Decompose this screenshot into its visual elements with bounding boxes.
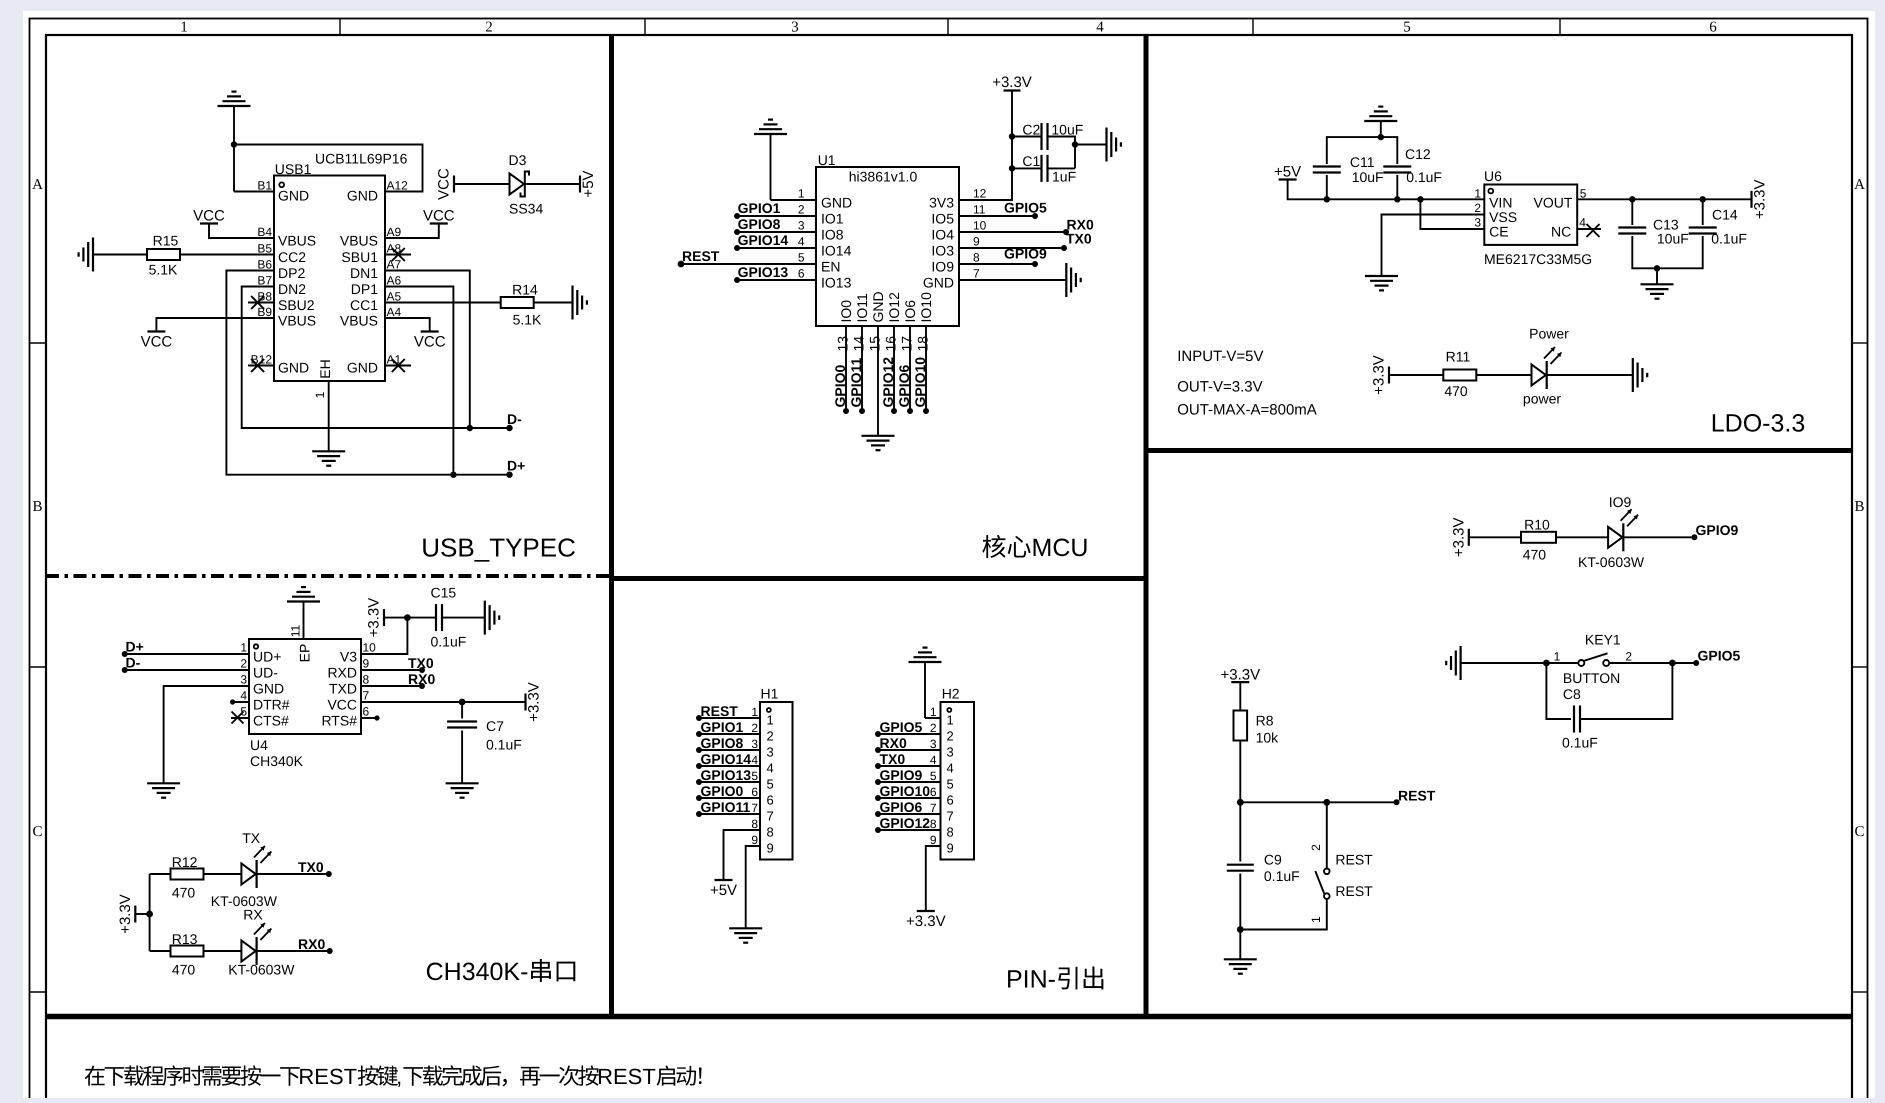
- wire LED to ground: [1547, 374, 1633, 376]
- node C1 C2 ground junction: [1072, 141, 1078, 147]
- net REST: [678, 248, 720, 267]
- svg-text:D3: D3: [509, 152, 527, 168]
- svg-text:470: 470: [172, 962, 196, 978]
- svg-text:CE: CE: [1489, 224, 1508, 240]
- net RX0 at LED: [298, 936, 333, 954]
- svg-text:U6: U6: [1484, 168, 1502, 184]
- row ticks left band: [30, 343, 47, 992]
- switch RESET: [1309, 844, 1373, 923]
- svg-text:USB_TYPEC: USB_TYPEC: [421, 533, 576, 563]
- power VCC at pin B4: [193, 208, 225, 225]
- pin 10 IO4: [931, 219, 986, 243]
- wire R12 to LED TX: [203, 873, 241, 875]
- svg-text:KEY1: KEY1: [1585, 632, 1621, 648]
- svg-text:VCC: VCC: [327, 697, 357, 713]
- svg-text:UD-: UD-: [253, 665, 278, 681]
- diode D3: [509, 152, 544, 217]
- pin 8 H2: [930, 817, 954, 840]
- wire KEY1 pin 2 to GPIO5: [1609, 662, 1696, 664]
- pin B5: [257, 242, 306, 266]
- svg-text:GND: GND: [347, 360, 378, 376]
- svg-text:GPIO0: GPIO0: [832, 364, 848, 407]
- pin EH: [313, 359, 333, 451]
- pin 9 H2: [930, 833, 954, 856]
- net GPIO14: [734, 232, 788, 251]
- wire pin B6 to D+ line: [226, 271, 509, 475]
- wire R8 to REST junction: [1239, 741, 1241, 803]
- svg-text:11: 11: [973, 203, 986, 217]
- svg-text:BUTTON: BUTTON: [1563, 670, 1620, 686]
- wire VCC to pin B4: [209, 224, 274, 239]
- pin 16 IO12: [883, 292, 903, 411]
- pin 12 3V3: [929, 187, 987, 211]
- wire GND to pin B1: [234, 145, 274, 192]
- ic U1 hi3861: [816, 152, 959, 326]
- net GPIO6 at H2 pin 7: [875, 799, 923, 817]
- svg-text:4: 4: [751, 753, 758, 767]
- node D- junction: [467, 425, 473, 431]
- svg-text:VOUT: VOUT: [1534, 195, 1573, 211]
- ground at pin 7: [1066, 263, 1080, 297]
- svg-text:B12: B12: [251, 353, 273, 367]
- svg-text:6: 6: [767, 793, 774, 808]
- node CE rail junction: [1417, 196, 1423, 202]
- node switch junction: [1323, 799, 1330, 806]
- svg-text:D+: D+: [507, 458, 525, 474]
- pin 18 IO10: [915, 292, 935, 411]
- svg-text:4: 4: [240, 689, 247, 703]
- svg-text:GND: GND: [253, 681, 284, 697]
- wire pin 11 to GPIO5: [959, 215, 1035, 217]
- svg-text:EH: EH: [317, 359, 333, 378]
- switch KEY1: [1554, 632, 1633, 687]
- title 核心MCU: [982, 534, 1088, 562]
- svg-text:9: 9: [767, 841, 774, 856]
- svg-text:DN1: DN1: [350, 265, 378, 281]
- wire pin 8 to GPIO9: [959, 263, 1035, 265]
- svg-text:CTS#: CTS#: [253, 713, 289, 729]
- svg-text:1: 1: [798, 187, 805, 201]
- svg-text:TX: TX: [242, 830, 261, 846]
- ground right of C15: [485, 601, 499, 635]
- svg-text:GPIO1: GPIO1: [701, 719, 744, 735]
- svg-text:C: C: [1854, 824, 1864, 840]
- svg-text:+5V: +5V: [710, 882, 737, 899]
- net REST terminal: [1394, 787, 1436, 805]
- svg-text:GPIO0: GPIO0: [701, 783, 744, 799]
- net TX0 at pin 9: [1061, 231, 1092, 252]
- wire ground to C12 top: [1381, 137, 1398, 164]
- svg-text:6: 6: [947, 793, 954, 808]
- svg-text:C7: C7: [486, 718, 504, 734]
- power +3.3V at C15: [366, 598, 385, 638]
- svg-text:5.1K: 5.1K: [513, 312, 542, 328]
- pin B8 no-connect: [248, 290, 315, 314]
- svg-text:0.1uF: 0.1uF: [1562, 734, 1598, 750]
- svg-text:2: 2: [1309, 844, 1323, 851]
- svg-text:GND: GND: [821, 195, 852, 211]
- svg-text:VCC: VCC: [193, 208, 225, 225]
- node C2 junction: [1009, 133, 1015, 139]
- svg-text:C12: C12: [1405, 146, 1431, 162]
- node C11 rail junction: [1324, 196, 1330, 202]
- net GPIO6 at pin 17: [896, 364, 913, 414]
- row ticks right band: [1852, 343, 1868, 992]
- svg-text:GPIO5: GPIO5: [1004, 200, 1047, 216]
- svg-text:C: C: [32, 824, 42, 840]
- pin 1 H1: [751, 705, 773, 728]
- node D- terminal: [506, 411, 522, 431]
- svg-text:GPIO9: GPIO9: [880, 767, 923, 783]
- svg-text:VBUS: VBUS: [278, 313, 316, 329]
- ground below C7: [446, 783, 479, 797]
- svg-text:IO8: IO8: [821, 227, 844, 243]
- ground below VSS: [1365, 276, 1398, 290]
- wire R11 to LED: [1477, 374, 1532, 376]
- svg-text:PIN-: PIN-: [1006, 966, 1056, 994]
- svg-text:A: A: [32, 177, 43, 193]
- svg-text:7: 7: [363, 689, 370, 703]
- node C1 junction: [1009, 165, 1015, 171]
- svg-text:UCB11L69P16: UCB11L69P16: [315, 151, 408, 167]
- pin 1 H2: [930, 705, 954, 728]
- node KEY1 right junction: [1669, 660, 1676, 667]
- svg-text:B4: B4: [257, 225, 272, 239]
- svg-text:2: 2: [947, 729, 954, 744]
- power +3.3V above C2: [992, 74, 1032, 91]
- net GPIO13: [734, 264, 788, 283]
- header H2 body: [941, 686, 975, 860]
- block divider dash-dot USB/CH340K: [46, 574, 612, 578]
- svg-text:A6: A6: [387, 274, 402, 288]
- svg-text:IO6: IO6: [902, 300, 918, 323]
- svg-text:VBUS: VBUS: [340, 313, 378, 329]
- svg-text:8: 8: [930, 817, 937, 831]
- wire VCC to pin A9: [385, 224, 439, 239]
- svg-text:GPIO9: GPIO9: [1004, 246, 1047, 262]
- svg-text:470: 470: [1444, 383, 1468, 399]
- node D+ terminal: [506, 458, 525, 478]
- block divider vertical 1: [609, 35, 614, 1017]
- wire R15 to pin B5: [180, 254, 274, 256]
- capacitor C9: [1227, 851, 1300, 884]
- svg-text:18: 18: [915, 336, 931, 352]
- svg-text:GPIO10: GPIO10: [880, 783, 931, 799]
- svg-text:GPIO5: GPIO5: [1698, 648, 1741, 664]
- svg-text:6: 6: [751, 785, 758, 799]
- svg-text:0.1uF: 0.1uF: [431, 634, 467, 650]
- resistor R12: [171, 854, 204, 901]
- block divider MCU/PIN: [612, 576, 1147, 581]
- net GPIO8: [734, 216, 781, 235]
- svg-text:5: 5: [751, 769, 758, 783]
- svg-text:CH340K: CH340K: [250, 753, 304, 769]
- ground above EP pin U4: [287, 587, 320, 639]
- wire pin A5 to R14: [385, 302, 501, 304]
- svg-text:ME6217C33M5G: ME6217C33M5G: [1484, 251, 1592, 267]
- svg-text:UD+: UD+: [253, 649, 281, 665]
- svg-text:2: 2: [1474, 201, 1481, 215]
- svg-text:2: 2: [485, 20, 493, 36]
- ground at power LED: [1633, 358, 1647, 392]
- svg-text:2: 2: [240, 657, 247, 671]
- wire to ground below C13: [1656, 268, 1658, 284]
- net RX0 at pin 8: [408, 671, 435, 689]
- svg-text:VCC: VCC: [414, 334, 446, 351]
- wire +3.3V to R10: [1469, 536, 1521, 538]
- pin 6 H1: [751, 785, 773, 808]
- wire H1 pin 9 to ground: [746, 846, 760, 928]
- pin 13 IO0: [835, 300, 855, 411]
- svg-text:4: 4: [1579, 216, 1586, 230]
- power VCC at pin A9: [423, 208, 455, 225]
- wire C1 to ground net: [1048, 167, 1076, 169]
- svg-text:7: 7: [930, 801, 937, 815]
- svg-text:+5V: +5V: [580, 170, 597, 197]
- wire GPIO14 to pin 4: [737, 247, 816, 249]
- svg-text:IO9: IO9: [931, 259, 954, 275]
- pin B4: [257, 225, 316, 249]
- net GPIO5 at H2 pin 2: [875, 719, 923, 737]
- svg-text:6: 6: [798, 267, 805, 281]
- wire GPIO10 to H2 pin 6: [878, 797, 941, 799]
- svg-text:USB1: USB1: [275, 161, 312, 177]
- wire CE to rail: [1420, 199, 1484, 229]
- svg-text:10uF: 10uF: [1051, 121, 1083, 137]
- svg-text:10k: 10k: [1256, 730, 1280, 746]
- svg-text:C15: C15: [431, 585, 457, 601]
- wire GPIO11 to H1 pin 7: [699, 813, 760, 815]
- wire junction to KEY1 pin 1: [1546, 662, 1578, 664]
- pin B7: [257, 274, 306, 298]
- wire GPIO1 to H1 pin 2: [699, 733, 760, 735]
- wire pin A4 to VCC: [385, 318, 430, 332]
- net GPIO10 at pin 18: [912, 357, 929, 414]
- svg-text:B6: B6: [257, 258, 272, 272]
- svg-text:IO14: IO14: [821, 243, 852, 259]
- capacitor C11: [1313, 154, 1384, 185]
- note INPUT-V: [1177, 348, 1263, 365]
- wire C8 to KEY1 right: [1580, 663, 1672, 719]
- svg-text:2: 2: [1625, 650, 1632, 664]
- svg-text:16: 16: [883, 336, 899, 352]
- svg-text:GND: GND: [278, 360, 309, 376]
- wire +3.3V to junction: [135, 913, 149, 915]
- svg-text:GND: GND: [278, 187, 309, 203]
- svg-text:NC: NC: [1551, 224, 1571, 240]
- pin 9 RXD: [327, 657, 369, 681]
- svg-text:GPIO13: GPIO13: [701, 767, 752, 783]
- svg-text:RX0: RX0: [298, 936, 325, 952]
- wire pin 8 to RX0: [361, 685, 422, 687]
- svg-text:SS34: SS34: [509, 201, 543, 217]
- svg-text:hi3861v1.0: hi3861v1.0: [849, 169, 918, 185]
- svg-text:+3.3V: +3.3V: [1752, 179, 1769, 219]
- wire GPIO8 to H1 pin 3: [699, 749, 760, 751]
- wire pin 10 to RX0: [959, 231, 1066, 233]
- net GPIO8 at H1 pin 3: [696, 735, 744, 753]
- svg-text:CH340K-: CH340K-: [426, 958, 529, 986]
- wire C13 C14 bottom rail: [1632, 236, 1702, 268]
- pin 4 H1: [751, 753, 773, 776]
- svg-text:GPIO5: GPIO5: [880, 719, 923, 735]
- svg-text:VCC: VCC: [436, 168, 453, 200]
- pin 2 H2: [930, 721, 954, 744]
- net GPIO9 terminal: [1691, 522, 1738, 540]
- pin 1 GND: [798, 187, 852, 211]
- svg-text:1: 1: [1309, 916, 1323, 923]
- svg-text:8: 8: [767, 825, 774, 840]
- svg-text:4: 4: [1096, 20, 1104, 36]
- svg-text:11: 11: [289, 624, 303, 637]
- svg-text:4: 4: [798, 235, 805, 249]
- wire pin A6 to D+ line: [385, 287, 453, 475]
- net TX0 at pin 9: [408, 655, 434, 673]
- svg-text:13: 13: [835, 336, 851, 352]
- svg-text:U4: U4: [250, 737, 268, 753]
- net GPIO13 at H1 pin 5: [696, 767, 751, 785]
- net D-: [122, 655, 141, 674]
- power +3.3V at R11: [1371, 355, 1390, 395]
- pin 8 TXD: [329, 673, 370, 697]
- svg-text:7: 7: [947, 809, 954, 824]
- net GPIO12 at pin 16: [880, 357, 897, 414]
- wire ground to pin 1: [771, 199, 817, 201]
- pin A8 no-connect: [341, 242, 411, 266]
- svg-text:R15: R15: [153, 232, 179, 248]
- node R12 R13 junction: [146, 911, 153, 918]
- pin B9: [257, 305, 316, 329]
- svg-text:CC1: CC1: [350, 297, 378, 313]
- ground below C9: [1224, 959, 1257, 973]
- power +3.3V at R10: [1450, 517, 1469, 557]
- wire pin 9 to TX0: [959, 247, 1064, 249]
- node V3 junction: [404, 614, 411, 621]
- wire GND to pin A12: [234, 145, 423, 192]
- wire GPIO12 to H2 pin 8: [878, 829, 941, 831]
- svg-text:RX: RX: [243, 907, 263, 923]
- pin A1 no-connect: [347, 353, 411, 376]
- svg-text:1uF: 1uF: [1052, 169, 1076, 185]
- svg-text:6: 6: [363, 705, 370, 719]
- wire VCC to D3: [454, 183, 510, 185]
- svg-text:5: 5: [1403, 20, 1411, 36]
- svg-text:KT-0603W: KT-0603W: [1578, 554, 1645, 570]
- ic U4 CH340K: [249, 639, 361, 769]
- led RX: [228, 907, 295, 978]
- title PIN-引出: [1006, 966, 1103, 994]
- svg-text:470: 470: [1523, 547, 1547, 563]
- svg-text:3: 3: [791, 20, 799, 36]
- wire RX0 to H2 pin 3: [878, 749, 941, 751]
- wire switch pin 1 to bottom rail: [1240, 899, 1327, 930]
- power +3.3V at pin 7: [526, 682, 543, 722]
- svg-text:+3.3V: +3.3V: [1371, 355, 1388, 395]
- pin 7 H1: [751, 801, 773, 824]
- svg-text:8: 8: [751, 817, 758, 831]
- wire C9 top: [1239, 802, 1241, 861]
- svg-text:,: ,: [396, 1064, 402, 1089]
- svg-text:GND: GND: [870, 291, 886, 322]
- wire GPIO0 to H1 pin 6: [699, 797, 760, 799]
- wire LED TX to TX0: [257, 873, 329, 875]
- svg-text:KT-0603W: KT-0603W: [228, 962, 295, 978]
- svg-text:9: 9: [363, 657, 370, 671]
- wire +3.3V to R11: [1389, 374, 1443, 376]
- row labels A B C right: [1854, 177, 1865, 840]
- svg-text:1: 1: [1474, 186, 1481, 200]
- ground below EH: [312, 451, 345, 465]
- svg-text:GPIO1: GPIO1: [738, 200, 781, 216]
- wire VSS to ground: [1382, 215, 1485, 276]
- svg-text:GND: GND: [347, 187, 378, 203]
- svg-text:LDO-3.3: LDO-3.3: [1711, 410, 1805, 438]
- led TX: [211, 830, 278, 909]
- net GPIO12 at H2 pin 8: [875, 815, 930, 833]
- pin 15 GND: [867, 291, 887, 435]
- svg-text:3: 3: [798, 219, 805, 233]
- title USB_TYPEC: [421, 533, 576, 563]
- svg-text:4: 4: [930, 753, 937, 767]
- ground top of USB1: [218, 92, 251, 145]
- net GPIO5 at pin 11: [1004, 200, 1047, 220]
- svg-text:12: 12: [973, 187, 987, 201]
- svg-text:8: 8: [363, 673, 370, 687]
- power +5V at LDO input: [1274, 164, 1301, 181]
- svg-text:R11: R11: [1446, 348, 1471, 364]
- node GND junction above USB1: [231, 141, 237, 147]
- power VCC at D3: [436, 168, 455, 200]
- svg-text:IO5: IO5: [931, 211, 954, 227]
- pin 5 EN: [798, 251, 841, 275]
- svg-text:GPIO14: GPIO14: [701, 751, 752, 767]
- wire pin A7 to D- line: [385, 271, 470, 429]
- power +3.3V at R8: [1220, 666, 1260, 683]
- svg-text:TXD: TXD: [329, 681, 357, 697]
- svg-text:U1: U1: [818, 152, 836, 168]
- pin 17 IO6: [899, 300, 919, 411]
- svg-text:6: 6: [1709, 20, 1717, 36]
- wire C2 to ground net: [1048, 137, 1076, 169]
- wire ground to C11 top: [1327, 137, 1381, 164]
- pin 7 H2: [930, 801, 954, 824]
- svg-text:DTR#: DTR#: [253, 697, 290, 713]
- svg-text:A4: A4: [387, 305, 402, 319]
- svg-text:6: 6: [930, 785, 937, 799]
- wire C15 to ground: [442, 617, 485, 619]
- title CH340K-串口: [426, 958, 576, 986]
- pin 5 CTS# no-connect: [231, 705, 289, 729]
- svg-text:1: 1: [180, 20, 188, 36]
- wire pin 3 to ground: [164, 686, 249, 783]
- svg-text:+3.3V: +3.3V: [992, 74, 1032, 91]
- svg-text:H1: H1: [761, 686, 779, 702]
- svg-text:2: 2: [798, 203, 805, 217]
- svg-text:GPIO8: GPIO8: [701, 735, 744, 751]
- svg-text:VBUS: VBUS: [278, 233, 316, 249]
- resistor R15: [147, 232, 180, 277]
- pin A12: [347, 179, 408, 204]
- wire REST to pin 5: [681, 263, 816, 265]
- row labels A B C left: [32, 177, 43, 840]
- wire R10 to LED IO9: [1556, 536, 1608, 538]
- wire C11 bottom to rail: [1326, 175, 1328, 199]
- capacitor C2: [1022, 121, 1083, 150]
- svg-text:0.1uF: 0.1uF: [1711, 231, 1747, 247]
- svg-text:+3.3V: +3.3V: [526, 682, 543, 722]
- svg-text:+3.3V: +3.3V: [1450, 517, 1467, 557]
- svg-text:IO3: IO3: [931, 243, 954, 259]
